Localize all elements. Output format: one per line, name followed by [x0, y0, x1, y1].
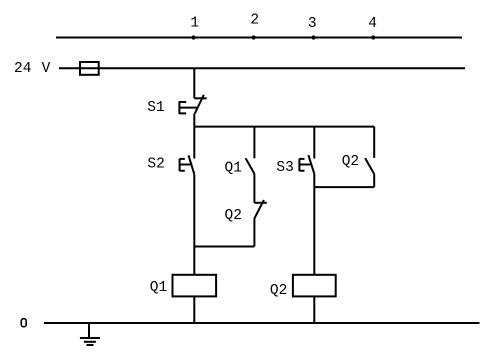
- wire: coil Q2 to 0V rail: [313, 296, 315, 323]
- wire: S1 to junction row: [193, 114, 195, 127]
- net 24V label: [14, 61, 51, 77]
- wire: junction row to Q1 contact: [253, 127, 255, 159]
- wire: latching branch connector row (col3-col4): [314, 186, 374, 188]
- node 1: [190, 16, 199, 40]
- wire: Q1 contact to Q2 NC contact: [253, 174, 255, 203]
- wire: S3 through junction down to coil Q2: [313, 174, 315, 275]
- svg-text:Q2: Q2: [225, 208, 242, 224]
- label Q2 coil: [270, 283, 287, 299]
- switch S1 (NC pushbutton): [179, 95, 206, 114]
- wire: bottom connector row (col1-col2): [194, 246, 254, 248]
- 24V supply rail wire: [59, 67, 465, 69]
- ground: [80, 323, 100, 345]
- net 0V label: [21, 319, 26, 327]
- wire: junction row to S3: [313, 127, 315, 159]
- label S3: [276, 160, 293, 176]
- switch S2 (NO pushbutton): [180, 155, 195, 174]
- contact Q2 (NC): [254, 200, 266, 218]
- wire: Q2 NC contact down to bottom connector: [253, 218, 255, 246]
- switch S3 (NO pushbutton): [299, 155, 314, 174]
- svg-text:Q2: Q2: [270, 283, 287, 299]
- contact Q2 (NO, latching branch): [365, 158, 374, 174]
- wire: S2 down to bottom connector: [193, 174, 195, 246]
- svg-text:24: 24: [14, 61, 31, 77]
- svg-text:V: V: [42, 61, 51, 77]
- label Q2 NO contact: [342, 154, 359, 170]
- fuse F1: [80, 62, 99, 75]
- svg-text:1: 1: [190, 16, 199, 32]
- svg-text:Q2: Q2: [342, 154, 359, 170]
- wire: coil Q1 to 0V rail: [193, 296, 195, 323]
- wire: horizontal junction row: [194, 126, 374, 128]
- label Q1 coil: [150, 280, 167, 296]
- label Q2 NC contact: [225, 208, 242, 224]
- wire: junction row to Q2 NO contact: [373, 127, 375, 158]
- wire: Q2 NO contact down: [373, 174, 375, 187]
- node 2: [250, 12, 259, 39]
- label Q1 contact: [225, 160, 242, 176]
- svg-text:S1: S1: [147, 100, 164, 116]
- svg-text:Q1: Q1: [150, 280, 167, 296]
- label S1: [147, 100, 164, 116]
- coil Q1: [173, 275, 217, 297]
- wire: col1 bottom connector down to coil Q1: [193, 247, 195, 275]
- svg-text:S3: S3: [276, 160, 293, 176]
- wire: junction row to S2: [193, 127, 195, 159]
- svg-text:4: 4: [368, 16, 377, 32]
- svg-text:2: 2: [250, 12, 259, 28]
- node 4: [368, 16, 377, 39]
- label S2: [147, 157, 164, 173]
- node 3: [308, 16, 317, 39]
- wire: 24V rail to S1: [193, 68, 195, 98]
- svg-text:Q1: Q1: [225, 160, 242, 176]
- 0V bottom rail wire: [44, 322, 480, 324]
- numbering rail: [56, 37, 462, 39]
- svg-text:3: 3: [308, 16, 317, 32]
- coil Q2: [293, 275, 336, 297]
- contact Q1 (NO): [246, 158, 255, 173]
- svg-text:S2: S2: [147, 157, 164, 173]
